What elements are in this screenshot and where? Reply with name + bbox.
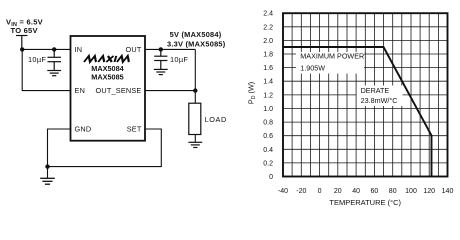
op-amp U1 MAX5084/MAX5085 box bbox=[71, 36, 146, 141]
svg-text:5V (MAX5084): 5V (MAX5084) bbox=[170, 30, 222, 39]
svg-text:-20: -20 bbox=[296, 188, 306, 195]
svg-text:40: 40 bbox=[352, 188, 360, 195]
node VIN label bbox=[6, 18, 43, 36]
svg-text:TEMPERATURE (°C): TEMPERATURE (°C) bbox=[329, 198, 401, 207]
input terminal bbox=[16, 36, 28, 50]
svg-text:TO 65V: TO 65V bbox=[11, 26, 38, 35]
svg-text:1.905W: 1.905W bbox=[300, 63, 325, 72]
ground main bbox=[40, 178, 55, 184]
MAXIM logo bbox=[84, 56, 131, 62]
wire OUT down to load bbox=[194, 49, 196, 103]
svg-text:EN: EN bbox=[75, 86, 86, 95]
wire OUT_SENSE bbox=[145, 90, 195, 92]
node OUT labels bbox=[167, 30, 226, 49]
svg-text:1.2: 1.2 bbox=[263, 92, 273, 99]
svg-text:DERATE: DERATE bbox=[361, 86, 390, 95]
svg-text:1.4: 1.4 bbox=[263, 79, 273, 86]
svg-text:0: 0 bbox=[269, 174, 273, 181]
svg-text:0.8: 0.8 bbox=[263, 120, 273, 127]
svg-text:0.2: 0.2 bbox=[263, 160, 273, 167]
wire load to ground bbox=[194, 135, 196, 143]
wire OUT bbox=[145, 48, 195, 50]
svg-text:120: 120 bbox=[423, 188, 435, 195]
chart gridlines vertical bbox=[292, 13, 438, 176]
svg-text:MAXIMUM POWER: MAXIMUM POWER bbox=[300, 52, 364, 61]
wire VIN to IN bbox=[22, 48, 71, 50]
node junction at VIN bbox=[20, 47, 24, 51]
svg-text:23.8mW/°C: 23.8mW/°C bbox=[361, 96, 398, 105]
node junction at OUT_SENSE bbox=[193, 88, 197, 92]
wire junction to ground symbol bbox=[47, 167, 49, 179]
svg-text:OUT_SENSE: OUT_SENSE bbox=[96, 86, 142, 95]
svg-text:140: 140 bbox=[442, 188, 454, 195]
chart curve bbox=[283, 47, 432, 177]
svg-text:60: 60 bbox=[371, 188, 379, 195]
node junction at C1 bbox=[52, 47, 56, 51]
svg-text:100: 100 bbox=[405, 188, 417, 195]
svg-text:MAX5085: MAX5085 bbox=[91, 73, 123, 82]
wire SET return bbox=[48, 129, 162, 167]
svg-text:10µF: 10µF bbox=[170, 55, 188, 64]
y-axis labels bbox=[263, 11, 273, 181]
svg-text:2.4: 2.4 bbox=[263, 11, 273, 18]
resistor LOAD bbox=[189, 103, 201, 134]
svg-text:-40: -40 bbox=[278, 188, 288, 195]
ground below LOAD bbox=[188, 142, 202, 147]
svg-text:20: 20 bbox=[334, 188, 342, 195]
wire EN branch bbox=[22, 49, 70, 90]
svg-text:2.0: 2.0 bbox=[263, 38, 273, 45]
svg-text:1.6: 1.6 bbox=[263, 65, 273, 72]
capacitor C2 10uF bbox=[154, 49, 167, 69]
chart annotation box 1 bbox=[296, 52, 364, 74]
svg-text:1.0: 1.0 bbox=[263, 106, 273, 113]
svg-text:10µF: 10µF bbox=[28, 55, 46, 64]
wire GND to ground node bbox=[48, 129, 71, 167]
svg-text:0: 0 bbox=[318, 188, 322, 195]
chart annotation box 2 bbox=[357, 86, 403, 107]
ground below C2 bbox=[154, 69, 168, 74]
chart gridlines horizontal bbox=[283, 27, 448, 163]
svg-text:OUT: OUT bbox=[125, 45, 141, 54]
capacitor C1 10uF bbox=[48, 49, 62, 70]
chart border bbox=[283, 13, 448, 176]
ground below C1 bbox=[47, 71, 61, 76]
svg-text:GND: GND bbox=[75, 125, 92, 134]
svg-text:PD (W): PD (W) bbox=[247, 82, 258, 104]
svg-text:3.3V (MAX5085): 3.3V (MAX5085) bbox=[167, 39, 226, 48]
svg-text:LOAD: LOAD bbox=[205, 115, 227, 124]
svg-text:1.8: 1.8 bbox=[263, 52, 273, 59]
svg-text:0.6: 0.6 bbox=[263, 133, 273, 140]
svg-text:IN: IN bbox=[75, 45, 83, 54]
svg-text:80: 80 bbox=[389, 188, 397, 195]
node junction at ground bbox=[45, 164, 49, 168]
svg-text:SET: SET bbox=[127, 125, 142, 134]
x-axis labels bbox=[278, 188, 454, 195]
svg-text:0.4: 0.4 bbox=[263, 147, 273, 154]
node junction at C2 bbox=[159, 47, 163, 51]
svg-text:2.2: 2.2 bbox=[263, 24, 273, 31]
